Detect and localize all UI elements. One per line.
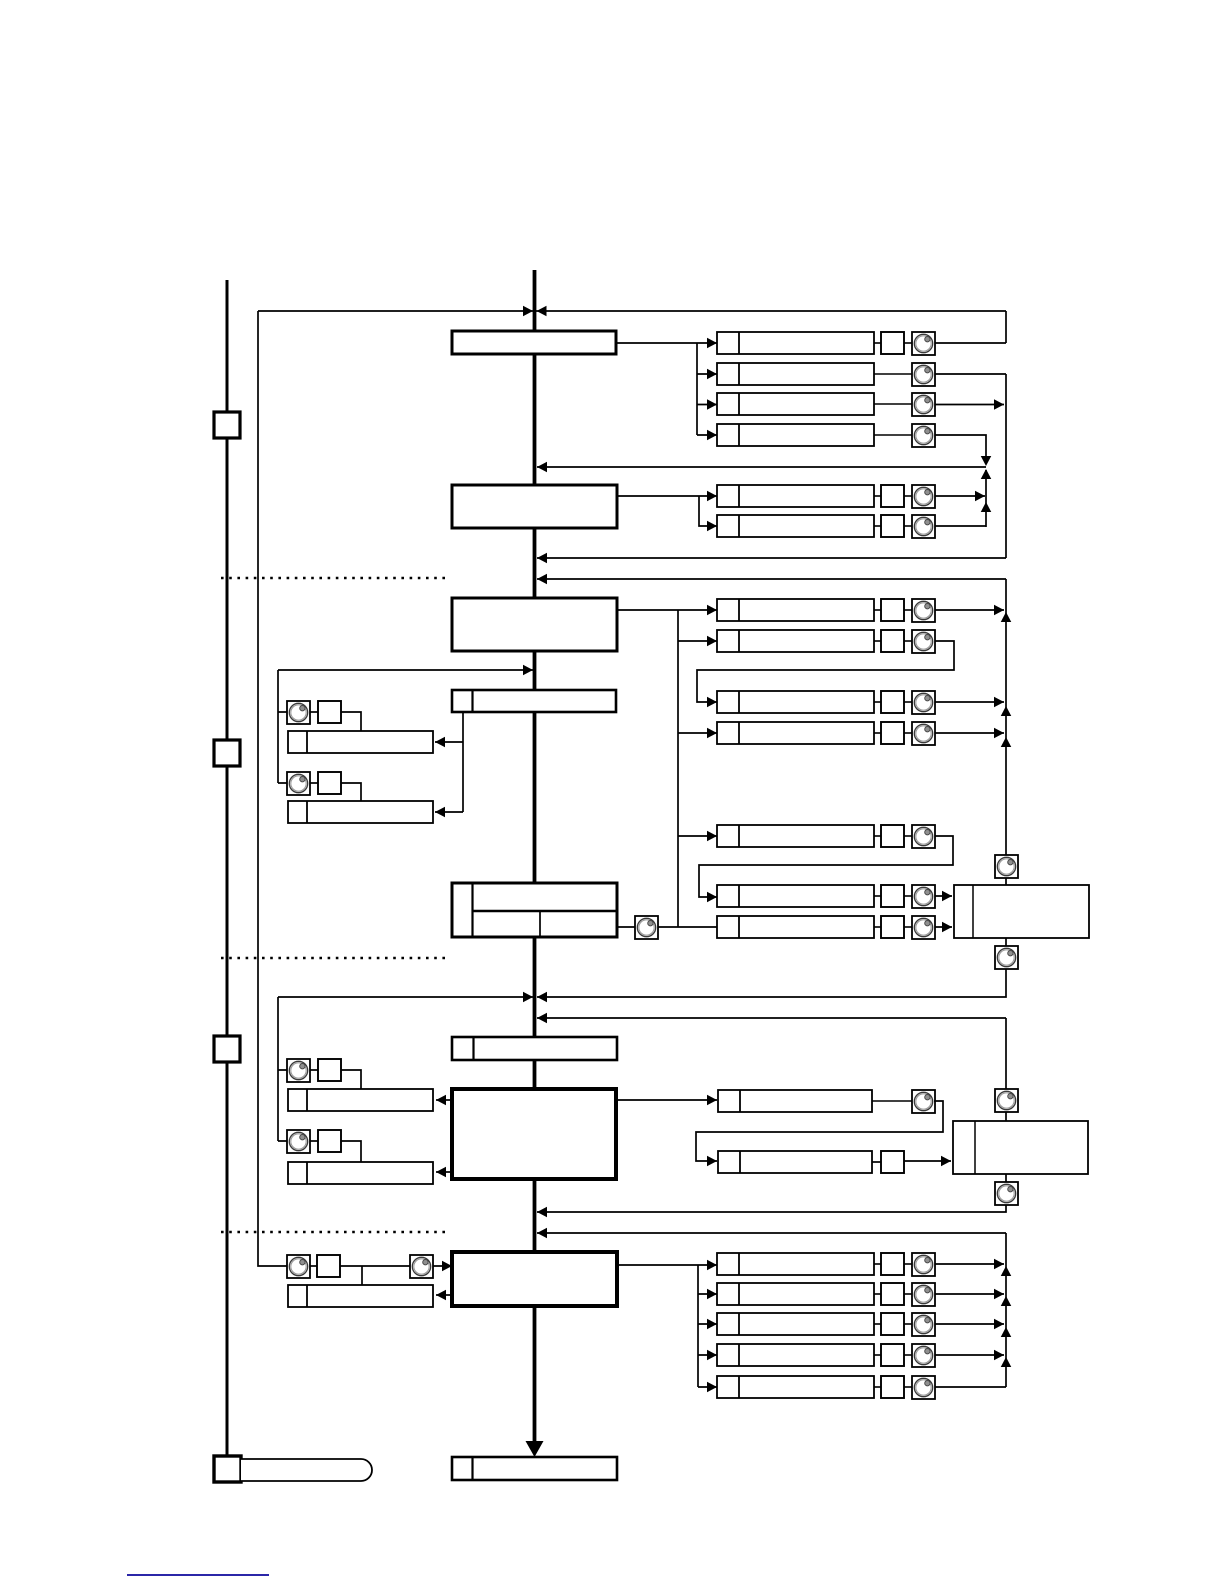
- wire: action row D rect-square stub: [874, 732, 881, 734]
- wire: S6 output feeder rail to bottom rows 1-5: [617, 1265, 717, 1387]
- wire: action row C square-circle stub: [904, 701, 912, 703]
- result rect 4: [288, 1162, 433, 1184]
- wire: A1 circle-square stub: [310, 711, 318, 713]
- step box S1: [452, 331, 616, 354]
- wire: action row 1 rect-square stub: [874, 342, 881, 344]
- condition timer circle B: [410, 1255, 433, 1278]
- action row 4 rect: [717, 424, 874, 446]
- wire: left condition line y670 into main line: [278, 669, 533, 671]
- wire: top-left return line into main line: [258, 310, 533, 312]
- bottom action row 5 timer circle: [912, 1376, 935, 1399]
- wire: A3 square to result rect 3: [341, 1070, 361, 1089]
- wire: S4 circle output line to row G (crosses feeder rail): [658, 926, 717, 928]
- arrow: into main line from right at top: [537, 306, 547, 317]
- wire: A4 square to result rect 4: [341, 1141, 361, 1162]
- wire: S5 output to row H: [616, 1099, 717, 1101]
- wire: T2 drop line to rects 1-2: [435, 712, 463, 812]
- wire: action row 5 rect-square stub: [874, 495, 881, 497]
- footer: blue underline: [127, 1574, 269, 1576]
- wire: action row 2 rect-circle stub: [874, 373, 912, 375]
- wire: action row B square-circle stub: [904, 640, 912, 642]
- wire: lower junction rail x986: [985, 470, 987, 527]
- separator: dotted line 2: [221, 957, 449, 960]
- action row 3 timer circle: [912, 393, 935, 416]
- wire: bottom action row 1 rect-square stub: [874, 1263, 881, 1265]
- interlock A3 timer circle: [287, 1059, 310, 1082]
- action row C rect: [717, 691, 874, 713]
- action row D rect: [717, 722, 874, 744]
- bottom action row 1 timer circle: [912, 1253, 935, 1276]
- interlock A5 square: [317, 1255, 340, 1277]
- arrow: up-arrow on x986 rail below y467: [981, 469, 992, 479]
- arrow: row C into rail: [994, 697, 1004, 708]
- arrow: return into main line y997 from right: [537, 992, 547, 1003]
- arrow: left condition into main line y670: [523, 665, 533, 676]
- wire: bottom row 2 output to rail: [935, 1293, 1004, 1295]
- wire: top-right return line from right rail: [536, 310, 1006, 312]
- action row F timer circle: [912, 885, 935, 908]
- wire: bottom action row 3 rect-square stub: [874, 1323, 881, 1325]
- action row H rect: [718, 1090, 872, 1112]
- step box S3: [452, 598, 617, 651]
- wire: action row 6 rect-square stub: [874, 525, 881, 527]
- wire: action row G rect-square stub: [874, 926, 881, 928]
- separator: dotted line 3: [221, 1231, 449, 1234]
- arrow: into main line from left at top: [523, 306, 533, 317]
- arrow: S5 output into row H: [707, 1095, 717, 1106]
- wire: right rail segment to action row 1 output: [1005, 311, 1007, 343]
- wire: right rail y1233 down to bottom row 5: [1005, 1233, 1007, 1387]
- action row A timer circle: [912, 599, 935, 622]
- arrow: feeder into bottom row 1: [707, 1260, 717, 1271]
- arrow: feeder into row 3: [707, 399, 717, 410]
- wire: S6 left edge to rect 5: [436, 1294, 452, 1296]
- bottom action row 3 qualifier square: [881, 1313, 904, 1335]
- arrow: feeder into row 2: [707, 369, 717, 380]
- action row C timer circle: [912, 691, 935, 714]
- arrow: row A into rail: [994, 605, 1004, 616]
- node Q4: far-left terminal square: [214, 1456, 241, 1482]
- action row 4 timer circle: [912, 424, 935, 447]
- arrow: left condition into main line y997: [523, 992, 533, 1003]
- S4 output timer circle: [635, 916, 658, 939]
- action row 5 qualifier square: [881, 485, 904, 507]
- wire: A2 circle-square stub: [310, 782, 318, 784]
- interlock A4 square: [318, 1130, 341, 1152]
- wire: action row B rect-square stub: [874, 640, 881, 642]
- arrow: row I into macro box 2: [941, 1156, 951, 1167]
- wire: row H output Z-line to row I input: [696, 1101, 943, 1161]
- wire: bottom row 3 output to rail: [935, 1323, 1004, 1325]
- wire: S2 output feeder to rows 5-6: [617, 496, 717, 526]
- arrow: up-arrow on junction rail below row5: [981, 502, 992, 512]
- action row C qualifier square: [881, 691, 904, 713]
- wire: action row A square-circle stub: [904, 609, 912, 611]
- wire: A4 circle-square stub: [310, 1140, 318, 1142]
- terminal: stadium at bottom left: [241, 1459, 372, 1481]
- timer circle below macro box 2: [995, 1182, 1018, 1205]
- wire: A5 chain to circle B and rect 5: [340, 1266, 410, 1285]
- arrow: condition into S6: [442, 1261, 452, 1272]
- wire: macro box 2 bottom rail to return line y1212: [537, 1174, 1006, 1212]
- wire: row F output into macro box 1: [935, 895, 952, 897]
- wire: bottom action row 3 square-circle stub: [904, 1323, 912, 1325]
- action row D qualifier square: [881, 722, 904, 744]
- wire: right rail loop segment down to y558: [1005, 374, 1007, 558]
- arrow: feeder into row 4: [707, 430, 717, 441]
- arrow: into result rect 3: [436, 1095, 446, 1106]
- action row 1 timer circle: [912, 332, 935, 355]
- arrow: rail up-arrow below bottom row2 junction: [1001, 1296, 1012, 1306]
- wire: left sub-rail x278 group A3-A4: [278, 997, 287, 1141]
- step box S6: [452, 1252, 617, 1306]
- action row E rect: [717, 825, 874, 847]
- arrow: return into main line y1018: [537, 1013, 547, 1024]
- wire: bottom row 1 output to rail: [935, 1263, 1004, 1265]
- timer circle above macro box 1 on rail: [995, 855, 1018, 878]
- arrow: Z-line into row C: [707, 697, 717, 708]
- arrow: feeder into row 1: [707, 338, 717, 349]
- arrow: rail up-arrow below bottom row3 junction: [1001, 1327, 1012, 1337]
- wire: return line y1018 from right rail to main line: [537, 1017, 1006, 1019]
- arrow: feeder into row 6: [707, 521, 717, 532]
- interlock A2 square: [318, 772, 341, 794]
- bottom action row 1 rect: [717, 1253, 874, 1275]
- bottom action row 1 qualifier square: [881, 1253, 904, 1275]
- wire: S5 left edge to rect 3: [436, 1099, 452, 1101]
- action row 1 qualifier square: [881, 332, 904, 354]
- wire: action row F rect-square stub: [874, 895, 881, 897]
- action row E qualifier square: [881, 825, 904, 847]
- wire: row G output into macro box 1: [935, 926, 952, 928]
- arrow: Z-line into row F: [707, 892, 717, 903]
- action row G qualifier square: [881, 916, 904, 938]
- wire: row 2 output to right rail: [935, 373, 1006, 375]
- arrow: return into main line y1233: [537, 1228, 547, 1239]
- action row 5 timer circle: [912, 485, 935, 508]
- wire: bottom action row 2 rect-square stub: [874, 1293, 881, 1295]
- wire: left condition line y997 into main line: [278, 996, 533, 998]
- macro action box 2: [953, 1121, 1088, 1174]
- wire: action row E rect-square stub: [874, 835, 881, 837]
- bottom action row 3 timer circle: [912, 1313, 935, 1336]
- action row D timer circle: [912, 722, 935, 745]
- arrow: return into main line y467: [537, 462, 547, 473]
- action row B rect: [717, 630, 874, 652]
- node Q2: far-left connector square 2: [214, 740, 240, 766]
- arrow: into result rect 2: [435, 807, 445, 818]
- wire: row 4 output down to junction: [935, 435, 986, 462]
- step box S2: [452, 485, 617, 528]
- wire: bottom action row 1 square-circle stub: [904, 1263, 912, 1265]
- wire: A1 square to result rect 1: [341, 712, 361, 731]
- arrow: into result rect 4: [436, 1167, 446, 1178]
- wire: right rail long segment y579 to macro box 1: [1005, 579, 1007, 885]
- wire: row I rect-square stub: [872, 1161, 881, 1163]
- node Q1: far-left connector square 1: [214, 412, 240, 438]
- action row B timer circle: [912, 630, 935, 653]
- wire: row 3 output joining rail: [935, 404, 1004, 406]
- wire: S3 output feeder rail to rows A-E: [617, 610, 717, 927]
- action row 5 rect: [717, 485, 874, 507]
- separator: dotted line 1: [221, 577, 449, 580]
- bottom action row 5 rect: [717, 1376, 874, 1398]
- wire: A3 circle-square stub: [310, 1069, 318, 1071]
- arrow: row G into macro box 1: [942, 922, 952, 933]
- wire: bottom action row 5 rect-square stub: [874, 1386, 881, 1388]
- arrow: feeder into bottom row 4: [707, 1350, 717, 1361]
- arrow: return into main line y579: [537, 574, 547, 585]
- action row A rect: [717, 599, 874, 621]
- action row 1 rect: [717, 332, 874, 354]
- wire: row 6 output to junction rail corner: [935, 525, 986, 527]
- arrow: feeder into row A: [707, 605, 717, 616]
- bottom action row 4 rect: [717, 1344, 874, 1366]
- timer circle below macro box 1: [995, 946, 1018, 969]
- wire: circle B to step box S6: [433, 1265, 452, 1267]
- wire: A5 circle-square stub: [310, 1265, 317, 1267]
- arrow: rail up-arrow below row D junction: [1001, 737, 1012, 747]
- interlock A3 square: [318, 1059, 341, 1081]
- interlock A1 timer circle: [287, 701, 310, 724]
- wire: left sub-rail x278 group A1-A2: [278, 670, 287, 783]
- arrow: row F into macro box 1: [942, 891, 952, 902]
- action row 6 qualifier square: [881, 515, 904, 537]
- wire: bottom action row 2 square-circle stub: [904, 1293, 912, 1295]
- wire: row C output to rail: [935, 701, 1004, 703]
- wire: row B output Z-line to row C input: [697, 641, 954, 702]
- wire: return line y579 from main line to right rail: [537, 578, 1006, 580]
- action row 6 rect: [717, 515, 874, 537]
- transition box T2: [452, 690, 616, 712]
- wire: bottom action row 4 rect-square stub: [874, 1354, 881, 1356]
- action row I rect: [718, 1151, 872, 1173]
- action row 2 rect: [717, 363, 874, 385]
- wire: S5 left edge to rect 4: [436, 1171, 452, 1173]
- result rect 1: [288, 731, 433, 753]
- action row B qualifier square: [881, 630, 904, 652]
- transition box T4 (final): [452, 1457, 617, 1480]
- arrow: feeder into bottom row 2: [707, 1289, 717, 1300]
- action row I qualifier square: [881, 1151, 904, 1173]
- arrow: rail up-arrow below bottom row4 junction: [1001, 1357, 1012, 1367]
- arrow: row D into rail: [994, 728, 1004, 739]
- step box S5: [452, 1089, 616, 1179]
- action row A qualifier square: [881, 599, 904, 621]
- wire: return line y1233 from right rail to main line: [537, 1232, 1006, 1234]
- bottom action row 3 rect: [717, 1313, 874, 1335]
- arrow: rail up-arrow below row A junction: [1001, 612, 1012, 622]
- arrow: feeder into row D: [707, 728, 717, 739]
- action row F qualifier square: [881, 885, 904, 907]
- timer circle on rail above macro box 2: [995, 1089, 1018, 1112]
- wire: action row A rect-square stub: [874, 609, 881, 611]
- wire: action row 3 rect-circle stub: [874, 403, 912, 405]
- wire: bottom action row 5 square-circle stub: [904, 1386, 912, 1388]
- arrow: into result rect 5: [436, 1290, 446, 1301]
- arrow: bottom row 3 into rail: [994, 1319, 1004, 1330]
- wire: A2 square to result rect 2: [341, 783, 361, 801]
- arrow: feeder into bottom row 3: [707, 1319, 717, 1330]
- arrow: rail up-arrow below bottom row1 junction: [1001, 1266, 1012, 1276]
- result rect 2: [288, 801, 433, 823]
- wire: right rail y1018 down to macro box 2 top: [1005, 1018, 1007, 1121]
- macro step box S4 (segmented): [452, 883, 617, 937]
- action row F rect: [717, 885, 874, 907]
- bottom action row 2 rect: [717, 1283, 874, 1305]
- wire: action row E square-circle stub: [904, 835, 912, 837]
- wire: row 5 output to junction rail: [935, 495, 985, 497]
- arrow: feeder into bottom row 5: [707, 1382, 717, 1393]
- wire: row E output Z-line to row F input: [699, 836, 953, 897]
- arrow: row 3 into rail: [994, 399, 1004, 410]
- action row 3 rect: [717, 393, 874, 415]
- wire: action row C rect-square stub: [874, 701, 881, 703]
- arrow: feeder into row B: [707, 636, 717, 647]
- wire: main thick vertical line: [533, 270, 537, 1441]
- arrow: into result rect 1: [435, 737, 445, 748]
- wire: action row D square-circle stub: [904, 732, 912, 734]
- action row 6 timer circle: [912, 515, 935, 538]
- transition box T3: [452, 1037, 617, 1060]
- interlock A4 timer circle: [287, 1130, 310, 1153]
- wire: far-left master vertical line: [226, 280, 229, 1459]
- wire: action row 1 square-circle stub: [904, 342, 912, 344]
- arrow: feeder into row E: [707, 831, 717, 842]
- wire: left border rail from top junction down to bottom-left AND block: [258, 311, 287, 1266]
- result rect 5: [288, 1285, 433, 1307]
- macro action box 1: [954, 885, 1089, 938]
- bottom action row 2 timer circle: [912, 1283, 935, 1306]
- wire: row D output to rail: [935, 732, 1004, 734]
- bottom action row 4 timer circle: [912, 1344, 935, 1367]
- interlock A5 timer circle: [287, 1255, 310, 1278]
- bottom action row 2 qualifier square: [881, 1283, 904, 1305]
- wire: action row G square-circle stub: [904, 926, 912, 928]
- wire: return line y558 from right rail to main line: [537, 557, 1006, 559]
- wire: return line y467 into main line: [537, 466, 986, 468]
- wire: S4 output to its timer circle: [617, 926, 635, 928]
- wire: action row 6 square-circle stub: [904, 525, 912, 527]
- wire: bottom action row 4 square-circle stub: [904, 1354, 912, 1356]
- arrow: feeder into row 5: [707, 491, 717, 502]
- wire: action row H rect-circle stub: [872, 1100, 912, 1102]
- wire: bottom row 4 output to rail: [935, 1354, 1004, 1356]
- wire: row I output into macro box 2: [904, 1160, 951, 1162]
- arrow: return into main line y1212: [537, 1207, 547, 1218]
- action row 2 timer circle: [912, 363, 935, 386]
- action row G timer circle: [912, 916, 935, 939]
- arrow: main line bottom arrowhead: [526, 1441, 544, 1457]
- result rect 3: [288, 1089, 433, 1111]
- wire: action row 4 rect-circle stub: [874, 434, 912, 436]
- bottom action row 5 qualifier square: [881, 1376, 904, 1398]
- arrow: bottom row 4 into rail: [994, 1350, 1004, 1361]
- bottom action row 4 qualifier square: [881, 1344, 904, 1366]
- arrow: row 5 into junction rail: [975, 491, 985, 502]
- arrow: bottom row 1 into rail: [994, 1259, 1004, 1270]
- action row E timer circle: [912, 825, 935, 848]
- arrow: Z-line into row I: [707, 1156, 717, 1167]
- wire: S1 output feeder to action rows 1-4: [616, 343, 717, 435]
- wire: bottom row 5 output corner up to rail: [935, 1386, 1006, 1388]
- interlock A1 square: [318, 701, 341, 723]
- action row G rect: [717, 916, 874, 938]
- action row H timer circle: [912, 1090, 935, 1113]
- interlock A2 timer circle: [287, 772, 310, 795]
- wire: macro box 1 bottom rail to return line y997: [537, 938, 1006, 997]
- wire: action row F square-circle stub: [904, 895, 912, 897]
- node Q3: far-left connector square 3: [214, 1036, 240, 1062]
- arrow: rail up-arrow below row C junction: [1001, 706, 1012, 716]
- arrow: row 4 down into return line: [981, 456, 992, 466]
- wire: row A output to rail: [935, 609, 1004, 611]
- arrow: return into main line y558: [537, 553, 547, 564]
- wire: action row 5 square-circle stub: [904, 495, 912, 497]
- arrow: bottom row 2 into rail: [994, 1289, 1004, 1300]
